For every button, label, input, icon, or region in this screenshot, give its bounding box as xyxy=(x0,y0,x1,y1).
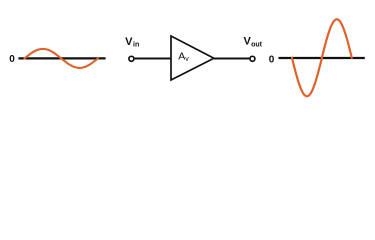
svg-text:0: 0 xyxy=(269,54,275,65)
svg-text:v: v xyxy=(185,56,189,63)
output sine waveform (large, inverted) xyxy=(292,19,352,96)
wire (input signal axis line) xyxy=(18,57,105,59)
terminal Vin (input terminal circle) xyxy=(129,56,134,61)
svg-text:in: in xyxy=(133,42,139,49)
input sine waveform (small) xyxy=(25,49,98,68)
op-amp Av (amplifier triangle) xyxy=(171,36,214,80)
wire (amplifier output to Vout terminal) xyxy=(214,58,249,60)
wire (Vin terminal to amplifier input) xyxy=(135,58,172,60)
svg-text:A: A xyxy=(178,51,185,63)
wire (output signal axis line) xyxy=(279,57,365,59)
svg-text:0: 0 xyxy=(9,54,15,65)
svg-text:V: V xyxy=(125,36,133,48)
terminal Vout (output terminal circle) xyxy=(250,56,255,61)
svg-text:out: out xyxy=(251,41,263,48)
